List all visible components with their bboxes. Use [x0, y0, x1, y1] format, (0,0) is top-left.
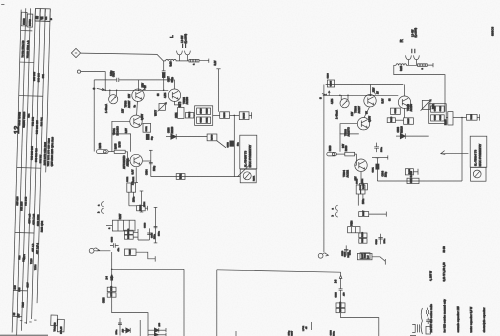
svg-text:8V: 8V [366, 111, 368, 114]
svg-text:R106: R106 [340, 301, 342, 307]
svg-text:C910: C910 [200, 117, 202, 123]
table column line 4 [27, 8, 36, 323]
svg-text:898: 898 [18, 255, 21, 260]
T5482 collector stub [143, 160, 151, 162]
connector tab b [102, 208, 104, 213]
wire bridge to R986 [213, 114, 220, 116]
svg-text:7136: 7136 [30, 258, 33, 264]
meter box L [240, 169, 256, 183]
C891 wire [141, 123, 144, 125]
svg-text:AERIAL: AERIAL [126, 157, 129, 166]
wire C866 down [111, 280, 113, 287]
wire C882 down [129, 192, 134, 206]
svg-text:R012: R012 [364, 252, 366, 258]
svg-text:901: 901 [42, 73, 45, 78]
svg-text:130n: 130n [154, 233, 156, 239]
thermistor R021 box [422, 100, 430, 109]
svg-text:C161: C161 [373, 166, 375, 172]
transistor T5481 [130, 115, 142, 127]
wire chain to corner [112, 297, 148, 336]
svg-text:10n: 10n [238, 142, 240, 146]
svg-text:R914: R914 [188, 111, 191, 117]
svg-text:100n: 100n [134, 196, 136, 202]
jack R hook left [406, 55, 412, 59]
svg-text:7105: 7105 [22, 302, 25, 308]
diode GR786 bar [129, 328, 131, 333]
arrow wire top right [441, 151, 469, 155]
jack L hook left [177, 51, 183, 55]
capacitor C891 box [143, 123, 151, 132]
svg-text:5414: 5414 [351, 220, 354, 226]
diamond inner mark [75, 52, 77, 54]
svg-text:50 50: 50 50 [443, 246, 446, 253]
resistor R914 box [185, 113, 193, 118]
meter box R needle [475, 171, 480, 177]
capacitor C885 tick bottom [154, 242, 158, 244]
svg-text:903 908 909: 903 908 909 [35, 148, 38, 163]
right loop top wire [217, 270, 341, 272]
svg-text:W977: W977 [155, 109, 157, 116]
bridge network outer box [195, 106, 213, 126]
table header cell A [21, 12, 27, 26]
resistor R982 box [176, 174, 185, 180]
svg-text:881 886: 881 886 [20, 201, 23, 211]
meter M2 leads [341, 95, 348, 100]
legend symbol cap [427, 308, 429, 317]
table row rule y168 [17, 167, 41, 170]
junction dot 4 [138, 90, 140, 92]
svg-text:0.9V: 0.9V [132, 169, 135, 174]
table header rule [35, 20, 50, 22]
tone boxes pair r1 [356, 185, 360, 194]
meter M1 leads [110, 90, 117, 95]
diode GR787 [154, 328, 158, 333]
terminal bar diodes 2 [165, 333, 167, 336]
table column line 6 [37, 9, 45, 303]
thermistor R977 box [159, 104, 165, 111]
svg-text:863 905: 863 905 [33, 71, 36, 81]
svg-text:R021: R021 [362, 237, 364, 243]
svg-text:7186: 7186 [34, 264, 37, 270]
svg-text:7549B 5531AB: 7549B 5531AB [21, 40, 24, 58]
capacitor C983 body dark [230, 141, 234, 146]
svg-text:C010: C010 [434, 105, 436, 111]
capacitor C885 lead [155, 207, 157, 243]
right loop chain arrow 2-6 [339, 272, 342, 278]
resistor 8878 box [107, 293, 116, 297]
legend symbol tick [410, 335, 416, 336]
T5485 collector lead [174, 80, 176, 89]
resistor R910r (stadium) [327, 152, 337, 156]
junction dot 1 [104, 90, 106, 92]
svg-text:ceramic capacitor 125: ceramic capacitor 125 [457, 306, 460, 333]
wire coil R to terminal [417, 64, 434, 66]
svg-text:R982: R982 [180, 173, 182, 179]
resistor R975 box [114, 150, 125, 153]
junction dot x462 [461, 117, 463, 119]
capacitor C877 lead [163, 78, 165, 91]
legend brace [421, 308, 422, 334]
svg-text:MAX SYMMETRY: MAX SYMMETRY [248, 145, 252, 168]
pickup jack tail R [322, 253, 325, 254]
coil R secondary (hatched) [418, 64, 428, 67]
diode GR787 bar [158, 328, 160, 333]
wire terminal to left block [81, 72, 106, 91]
table column line 3 [21, 8, 30, 330]
R127 divider 1 [117, 220, 119, 231]
svg-text:R026: R026 [446, 119, 448, 125]
resistor R982b box [131, 183, 135, 192]
svg-text:DR08: DR08 [128, 228, 130, 234]
svg-text:200n: 200n [384, 238, 386, 244]
svg-text:C105: C105 [331, 80, 333, 86]
meter M1 [109, 95, 118, 104]
diode GR888 [171, 134, 176, 139]
svg-text:for 01B service manual only: for 01B service manual only [444, 299, 447, 333]
capacitor C161 lead [376, 158, 378, 181]
wire coil R left down and across [394, 65, 445, 112]
svg-text:464: 464 [28, 113, 31, 118]
T5481 base wire [112, 121, 130, 134]
svg-text:44n: 44n [117, 247, 120, 251]
mid vertical rail [233, 115, 235, 176]
legend symbol res [426, 326, 430, 334]
svg-text:C868: C868 [104, 297, 106, 303]
svg-text:C020: C020 [434, 114, 436, 120]
resistor R986 box [220, 112, 230, 119]
svg-text:4276: 4276 [23, 254, 26, 260]
junction dot r1 [339, 95, 341, 97]
resistor R026 box [448, 112, 453, 125]
capacitor C877 body [162, 73, 165, 78]
table row rule y62 [20, 61, 34, 63]
meter box L needle [245, 173, 250, 179]
svg-text:100n: 100n [350, 249, 352, 255]
svg-text:2V: 2V [377, 91, 379, 94]
terminal bar R107 [384, 259, 386, 265]
svg-text:R986: R986 [224, 112, 226, 118]
svg-text:1130 1203: 1130 1203 [37, 214, 40, 226]
table column line 2 [17, 8, 26, 335]
diode GR888 cathode bar [175, 134, 177, 139]
svg-text:0-913: 0-913 [411, 170, 413, 177]
resistor R920 box [345, 152, 355, 156]
parts table (rotated list, left edge) [12, 8, 73, 336]
control block 5414 [348, 227, 360, 233]
svg-text:AC188: AC188 [186, 96, 189, 104]
T5009 base wire [340, 124, 357, 134]
tick bottom mid [310, 322, 312, 330]
capacitor C981 box [178, 107, 184, 118]
svg-text:861 863: 861 863 [32, 116, 35, 126]
wire into block [106, 225, 112, 227]
resistor R025 box [467, 114, 478, 120]
left rail vertical [93, 80, 95, 152]
svg-text:100n: 100n [363, 198, 365, 204]
connector diamond (automatic aerial) [71, 48, 80, 57]
junction dot r3 [370, 95, 372, 97]
svg-text:100p: 100p [288, 330, 290, 336]
svg-text:R908: R908 [140, 204, 142, 210]
svg-text:R906: R906 [211, 134, 213, 140]
capacitor C885 plates [154, 226, 158, 227]
table column line 1 [12, 10, 21, 333]
svg-text:220µ: 220µ [154, 165, 156, 171]
svg-text:12V: 12V [129, 93, 131, 98]
table column line 5 [32, 9, 41, 319]
table footer box B [57, 319, 64, 332]
table row rule y31 [21, 30, 33, 32]
jack R contact bars [412, 49, 415, 53]
capacitor C984 lead [150, 150, 152, 176]
svg-text:R025: R025 [471, 113, 473, 119]
meter box L dial [243, 172, 251, 180]
diode GR883 cathode bar [404, 133, 406, 138]
resistor R973 (stadium body) [97, 150, 109, 154]
coil L secondary hatch [191, 59, 197, 62]
svg-text:220µ: 220µ [386, 171, 388, 177]
capacitor C020 plates [378, 238, 382, 239]
wire tone pair down [358, 194, 363, 206]
capacitor C161 tick [376, 157, 380, 159]
R973 circle element [103, 150, 106, 153]
svg-text:C107: C107 [292, 330, 294, 336]
T5007 collector lead [404, 85, 406, 97]
junction dot 3 [116, 90, 118, 92]
svg-text:R101: R101 [254, 175, 256, 181]
svg-text:3x23: 3x23 [171, 61, 173, 67]
svg-text:R982: R982 [133, 176, 135, 182]
junction dot mid rail [234, 115, 236, 117]
T5485 emitter lead [175, 101, 181, 107]
wire diode to R906 [176, 136, 207, 138]
svg-text:C984: C984 [146, 169, 149, 175]
resistor R003 box [359, 184, 367, 190]
base wire left block [105, 89, 169, 91]
svg-text:R911: R911 [207, 117, 209, 123]
R127 divider 2 [123, 220, 125, 231]
left loop right edge [183, 269, 185, 336]
5414 divider 1 [351, 227, 353, 233]
resistor R107 box [357, 253, 372, 259]
svg-text:(Q+10%): (Q+10%) [415, 28, 418, 38]
diode GR883 [400, 133, 405, 138]
svg-text:100n: 100n [381, 146, 383, 152]
svg-text:R015: R015 [408, 118, 410, 124]
pickup jack arrow L [96, 248, 99, 251]
svg-text:12V: 12V [122, 108, 125, 113]
svg-text:C984: C984 [381, 170, 384, 176]
svg-text:C884: C884 [143, 201, 146, 207]
base wire right block [325, 94, 398, 96]
wire chain to corner right [341, 313, 379, 336]
transistor T5007 [398, 96, 410, 108]
svg-text:5.2V: 5.2V [214, 60, 217, 65]
wire D009 to terminal [413, 171, 418, 173]
svg-text:C020: C020 [376, 238, 378, 244]
svg-text:0,65V: 0,65V [142, 114, 144, 120]
svg-text:C981: C981 [176, 112, 178, 118]
capacitor 100n plates [118, 323, 122, 325]
control block R127 [112, 220, 135, 231]
capacitor C885 tick top [154, 206, 158, 208]
capacitor C883 plates [113, 243, 115, 248]
diode GR788 wire [148, 334, 154, 336]
T5004 emitter lead [360, 172, 362, 184]
resistor R906 box [207, 134, 217, 141]
capacitor C984 chain tick [149, 149, 153, 151]
svg-text:4277: 4277 [26, 282, 29, 288]
svg-text:C983: C983 [227, 141, 229, 147]
arrow S right line [322, 93, 325, 95]
svg-text:G225C 7513B: G225C 7513B [23, 112, 26, 128]
transistor T5480 [132, 89, 144, 101]
bridge inner box 2 [197, 117, 211, 123]
svg-text:848: 848 [18, 287, 21, 292]
table row rule y95 [19, 95, 43, 98]
coil R secondary hatch [419, 64, 425, 67]
pickup jack tail L [93, 248, 96, 249]
svg-text:901 903: 901 903 [24, 196, 27, 206]
wire R920 to T5004 base [354, 154, 356, 165]
svg-text:C882: C882 [127, 176, 129, 182]
terminal bar R908 [147, 206, 149, 211]
svg-text:5.8V: 5.8V [382, 98, 385, 103]
resistor R786 box [107, 287, 116, 291]
junction dot rect L [111, 269, 113, 271]
bridge outer box right [429, 104, 447, 124]
capacitor C983 body (dark) [146, 134, 149, 139]
wire R125 to terminal [136, 252, 155, 259]
resistor C913 box [407, 178, 419, 183]
pickup jack symbol L [89, 248, 94, 253]
table bottom tick 3 [29, 321, 31, 323]
wire R908 to tick [129, 206, 148, 208]
capacitor C105 box [327, 80, 334, 87]
wire coil L left down [164, 61, 166, 71]
capacitor C886 plates [147, 233, 151, 234]
legend symbol elco [426, 318, 430, 324]
svg-text:(Q+10%): (Q+10%) [184, 34, 187, 44]
wire R013 to R015 [395, 119, 403, 121]
capacitor C868r lead [340, 278, 342, 303]
wire top rail left block [94, 79, 116, 81]
svg-text:bei 507 01B series radio: bei 507 01B series radio [430, 304, 433, 333]
table column line 7 [46, 9, 51, 172]
svg-text:AC187: AC187 [128, 100, 131, 108]
svg-text:846: 846 [14, 285, 17, 290]
jack L hook leads [180, 55, 188, 61]
tap wire with tick [372, 157, 388, 159]
resistor DR08 box [124, 230, 133, 234]
svg-text:R125: R125 [130, 249, 132, 255]
svg-text:R013: R013 [391, 116, 393, 122]
long wire right block [377, 180, 462, 182]
svg-text:water capacitor 0,5 W: water capacitor 0,5 W [470, 306, 473, 332]
wire DR08 right [133, 229, 149, 240]
jack R hook right [414, 55, 420, 59]
right block left rail [323, 85, 325, 253]
terminal bar right of coil R [432, 63, 434, 67]
bridge inner box 1 [197, 108, 211, 114]
capacitor C883 stubs [110, 245, 119, 247]
diode GR786 [126, 328, 130, 333]
resistor R985 box [239, 112, 249, 120]
svg-text:0,2b W 1,50 1,50: 0,2b W 1,50 1,50 [443, 262, 446, 282]
right loop left edge [216, 270, 218, 336]
capacitor C880 plates [344, 249, 348, 250]
legend symbol bars [417, 324, 419, 332]
svg-text:C891: C891 [146, 125, 148, 131]
transistor T5485 [168, 89, 180, 101]
table header cell D [40, 9, 45, 22]
diode GR786 wire [123, 329, 126, 331]
svg-text:S: S [318, 97, 322, 99]
wire R107 to terminal [372, 257, 385, 262]
left loop top wire [112, 268, 184, 270]
note box symmetry L [240, 135, 257, 169]
capacitor C884 tick bottom [140, 211, 144, 213]
capacitor C882 box [127, 183, 131, 192]
connector tab b right [336, 212, 338, 217]
svg-text:R910: R910 [207, 108, 209, 114]
svg-text:AC132: AC132 [346, 169, 349, 177]
capacitor C161 body dark [376, 164, 379, 169]
capacitor 100n bottom lead [119, 318, 121, 336]
R127 divider 3 [128, 220, 130, 231]
T5480 collector lead [138, 80, 140, 89]
wire coil L to terminal [188, 60, 209, 62]
R910r circle element [332, 153, 335, 156]
jack L hook right [185, 51, 191, 55]
terminal bar R025 [479, 114, 481, 120]
svg-text:TRC10S: TRC10S [53, 322, 56, 332]
svg-text:AUTOMATIC: AUTOMATIC [123, 155, 126, 169]
svg-text:908 901: 908 901 [40, 117, 43, 127]
bridge inner box r2 [431, 115, 445, 121]
junction dot 2 [109, 90, 111, 92]
terminal circle S2 [77, 70, 80, 73]
svg-text:908 900: 908 900 [37, 72, 40, 82]
feedback loop wire [112, 134, 131, 152]
terminal bar bottom [235, 331, 237, 336]
tick bar tap [387, 155, 389, 159]
svg-text:LF02: LF02 [303, 325, 305, 331]
wire R910r to R920 [336, 153, 344, 155]
table row rule y232 [15, 231, 34, 234]
capacitor C010 box [391, 108, 401, 114]
svg-text:R8220: R8220 [401, 126, 403, 133]
svg-text:D009: D009 [409, 168, 411, 174]
table header cell E [45, 9, 50, 22]
svg-text:C880: C880 [342, 250, 344, 256]
svg-text:130n: 130n [158, 230, 160, 236]
svg-text:S98C3: S98C3 [491, 26, 495, 36]
wire T5480 to T5481 [136, 101, 139, 115]
capacitor C868r plates [339, 289, 343, 290]
terminal bar D009 [417, 169, 419, 175]
svg-text:0,65V: 0,65V [370, 116, 372, 122]
wire diode GR787 right [159, 329, 166, 331]
svg-text:R973: R973 [99, 142, 102, 148]
supply rail vertical [218, 69, 220, 112]
svg-text:1R10: 1R10 [200, 108, 202, 114]
svg-text:C803: C803 [330, 329, 332, 335]
resistor R580 box [336, 308, 345, 312]
diode GR883 wire [396, 135, 400, 137]
svg-text:427 C.F 4: 427 C.F 4 [36, 243, 39, 255]
svg-text:C010: C010 [395, 108, 397, 114]
